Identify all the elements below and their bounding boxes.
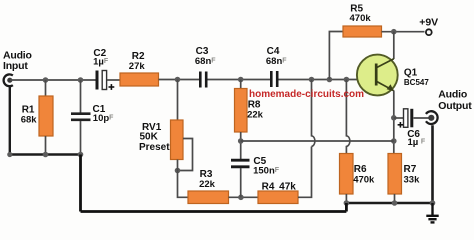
svg-text:27k: 27k xyxy=(129,61,146,72)
wire C4 to Q1 base xyxy=(279,79,375,81)
node ground xyxy=(430,200,436,206)
wire left ground line xyxy=(10,153,81,155)
resistor R2 xyxy=(120,51,159,86)
node R6 top xyxy=(344,77,350,83)
wire input to C2 xyxy=(10,79,96,81)
wire emitter to C6 xyxy=(394,117,404,119)
capacitor C3 xyxy=(195,46,216,87)
wire R6 bottom lead xyxy=(345,194,347,203)
node R1 bottom xyxy=(43,152,49,158)
wire R5 left vertical xyxy=(329,32,343,80)
wire C2 to R2 xyxy=(107,79,120,81)
capacitor C1 xyxy=(71,104,114,124)
node feedback R4 xyxy=(309,77,315,83)
wire Q1 emitter vertical xyxy=(393,91,395,154)
wire C1 top lead xyxy=(80,80,82,113)
resistor R3 xyxy=(188,169,229,204)
wire bottom node line R6-R7-ground xyxy=(346,202,432,204)
node collector/+9V xyxy=(391,29,397,35)
svg-text:50K: 50K xyxy=(140,132,159,143)
wire C1 bottom lead xyxy=(80,121,82,155)
svg-text:Output: Output xyxy=(438,100,472,112)
capacitor C6 electrolytic xyxy=(398,109,426,148)
preset RV1 xyxy=(139,120,193,171)
resistor R7 xyxy=(388,154,420,195)
transistor Q1 BC547 xyxy=(357,55,429,96)
wire R1 top lead xyxy=(45,80,47,96)
label Audio Output xyxy=(438,89,472,112)
svg-text:68k: 68k xyxy=(21,114,38,125)
terminal +9V xyxy=(419,16,438,35)
node emitter to C6 xyxy=(391,115,397,121)
resistor R5 xyxy=(343,3,382,37)
svg-text:+9V: +9V xyxy=(419,16,438,28)
wire RV1 bottom to R3 xyxy=(178,160,189,198)
capacitor C5 xyxy=(231,156,280,177)
capacitor C2 electrolytic xyxy=(93,48,114,90)
wire C6 to output xyxy=(414,117,432,119)
svg-text:homemade-circuits.com: homemade-circuits.com xyxy=(249,89,364,100)
resistor R4 xyxy=(258,181,298,203)
svg-text:22k: 22k xyxy=(199,179,216,190)
wire R8 bottom to C5 xyxy=(240,132,242,160)
label Audio Input xyxy=(3,50,32,72)
node R5 left xyxy=(327,77,333,83)
node R1 top xyxy=(43,77,49,83)
svg-text:Input: Input xyxy=(3,60,28,72)
wire hop feedback over emitter line xyxy=(312,80,315,147)
wire R1 bottom lead xyxy=(45,136,47,155)
svg-text:470k: 470k xyxy=(350,13,372,24)
connector J1 Audio Input xyxy=(4,74,13,86)
connector J2 Audio Output xyxy=(426,111,438,124)
node emitter to C5/R8 line xyxy=(391,138,397,144)
wire R8 top lead xyxy=(240,80,242,89)
node C1 bottom xyxy=(78,152,84,158)
wire output ground down xyxy=(431,125,434,203)
node RV1 top xyxy=(175,77,181,83)
svg-text:33k: 33k xyxy=(404,175,421,186)
node C5 bottom xyxy=(238,195,244,201)
svg-text:470k: 470k xyxy=(353,175,375,186)
wire R2 to C3 xyxy=(159,79,201,81)
svg-text:Preset: Preset xyxy=(139,142,170,153)
svg-text:BC547: BC547 xyxy=(404,78,429,87)
wire ground bus horizontal xyxy=(81,210,347,213)
wire C5 bottom lead xyxy=(240,168,242,197)
wire RV1 top lead xyxy=(177,80,179,121)
capacitor C4 xyxy=(266,46,287,87)
wire R6 top with hop xyxy=(346,80,349,154)
svg-text:Audio: Audio xyxy=(438,89,467,101)
node R7 bottom xyxy=(392,200,398,206)
wire ground bus vertical xyxy=(79,155,82,212)
node R8/C5/emitter xyxy=(238,138,244,144)
wire C3 to C4 xyxy=(208,79,272,81)
node RV1 bottom xyxy=(175,168,181,174)
node R6 bottom xyxy=(344,200,350,206)
node input ground xyxy=(7,152,12,157)
wire collector vertical xyxy=(393,32,395,59)
resistor R8 xyxy=(235,89,264,133)
wire R7 bottom lead xyxy=(394,194,396,203)
wire R4 right feedback up xyxy=(298,147,312,198)
wire ground bus up to R6 node xyxy=(345,203,348,212)
wire R3 to R4 xyxy=(229,196,259,198)
resistor R1 xyxy=(21,96,53,136)
svg-text:22k: 22k xyxy=(247,109,264,120)
node R8 top xyxy=(238,77,244,83)
resistor R6 xyxy=(340,154,376,195)
ground symbol xyxy=(426,203,438,222)
wire emitter line to C5 node xyxy=(241,140,394,142)
node C1 top xyxy=(78,77,84,83)
wire input ground down xyxy=(9,87,11,155)
wire R5 right to +9V xyxy=(382,31,425,33)
